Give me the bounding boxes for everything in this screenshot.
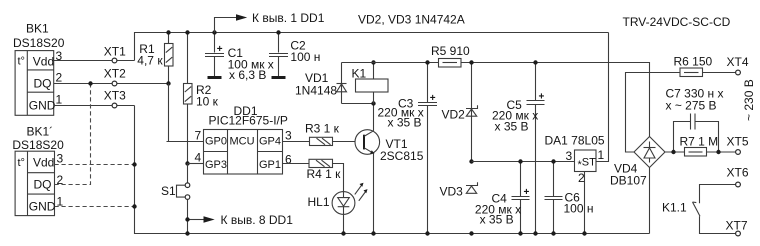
node S1 arrow junction [185,217,189,221]
node R1 bottom / DQ-GP0 [166,81,170,85]
svg-text:DA1 78L05: DA1 78L05 [545,134,605,148]
wire GP3 [188,163,204,165]
svg-text:х 6,3 В: х 6,3 В [229,68,266,82]
svg-text:DS18S20: DS18S20 [12,138,64,152]
node BK1' Vdd junction [132,162,136,166]
wire +5V top rail [135,33,609,61]
wire DQ down to GP0 [167,84,204,142]
svg-text:х 35 В: х 35 В [495,119,529,133]
resistor R6 [674,55,713,77]
node R2/GP3 junction [185,161,189,165]
pin 4 DD1 [195,151,202,165]
node C3 top [425,60,429,64]
resistor R2 [184,33,219,164]
label VD2 VD3 type [358,13,465,27]
node K1 top [371,60,375,64]
terminal XT1 [104,45,126,63]
LED HL1 [308,183,368,215]
svg-text:VD3: VD3 [440,185,464,199]
svg-text:R4 1 к: R4 1 к [307,167,342,181]
wire R3 to VT1 base [333,141,365,143]
wire GND to XT3 [54,105,135,107]
wire BK1' GND dashed [55,206,135,208]
svg-text:VD2: VD2 [442,108,466,122]
svg-text:XT6: XT6 [727,166,749,180]
sensor BK1 [13,22,65,116]
resistor R7 [680,135,719,157]
terminal XT2 [104,67,126,86]
node C7 right [716,150,720,154]
svg-text:7: 7 [195,129,202,143]
capacitor C1 [205,33,274,82]
svg-text:XT3: XT3 [104,89,126,103]
svg-text:XT5: XT5 [727,135,749,149]
wire R6 to XT4 [703,72,736,74]
svg-text:3: 3 [566,149,573,163]
bridge rectifier VD4 DB107 [610,137,665,188]
pin 2 BK1 [56,71,63,85]
pin 1 BK1' [57,195,64,209]
svg-text:1: 1 [56,93,63,107]
resistor R5 [431,44,470,67]
node VD3 ground [469,231,473,235]
wire GP1 to R4 [283,163,310,165]
wire BK1' Vdd dashed [55,164,135,166]
svg-text:+: + [430,93,436,104]
node VT1 collector junction [371,101,375,105]
wire VD1 bottom to VT1 collector [342,103,374,105]
wire rectified + bus [342,63,650,137]
wire R4 to HL1 [333,164,344,192]
node VT1 emitter ground [371,231,375,235]
pin 7 DD1 [195,129,202,143]
wire zener midpoint to DA1 input [472,161,575,163]
resistor R1 [137,33,173,84]
svg-text:S1: S1 [161,184,176,198]
svg-text:XT7: XT7 [726,219,748,233]
zener VD2 [442,63,478,162]
pin 3 BK1 [56,49,63,63]
capacitor C4 [475,162,530,234]
zener VD3 [440,182,478,198]
pin 2 BK1' [57,173,64,187]
svg-text:К выв. 1 DD1: К выв. 1 DD1 [252,11,325,25]
svg-text:VD2, VD3 1N4742A: VD2, VD3 1N4742A [358,13,465,27]
capacitor C6 [545,162,594,234]
svg-text:Vdd: Vdd [33,55,54,69]
svg-text:GP4: GP4 [259,136,281,148]
terminal XT6 [727,166,749,187]
pin 3 BK1' [57,152,64,166]
svg-text:2: 2 [56,71,63,85]
wire to pin 8 DD1 arrow [188,213,294,227]
wire DQ to XT2 [54,83,169,85]
ground C1 [208,76,222,79]
label TRV relay type [623,15,731,29]
pin 3 DD1 [285,129,292,143]
svg-text:3: 3 [57,152,64,166]
node DA1 pin2 ground [582,231,586,235]
svg-text:t°: t° [18,56,25,68]
label 230V mains [742,79,756,121]
wire to pin 1 DD1 arrow [215,11,325,33]
capacitor C7 [666,87,724,153]
node VD2 top [469,60,473,64]
svg-text:х ~ 275 В: х ~ 275 В [666,99,717,113]
svg-text:R5 910: R5 910 [431,44,470,58]
resistor R3 [305,122,340,146]
svg-text:К выв. 8 DD1: К выв. 8 DD1 [221,213,294,227]
node C6 ground [551,231,555,235]
svg-text:TRV-24VDC-SC-CD: TRV-24VDC-SC-CD [623,15,731,29]
node C6 top [551,159,555,163]
svg-text:XT4: XT4 [727,55,749,69]
wire bridge minus to ground rail [649,168,651,234]
svg-text:MCU: MCU [230,136,255,148]
svg-text:PIC12F675-I/P: PIC12F675-I/P [209,114,288,128]
svg-text:GP1: GP1 [259,159,281,171]
node DQ dashed junction [88,81,92,85]
capacitor C5 [492,63,545,234]
terminal XT5 [727,135,749,155]
svg-text:3: 3 [285,129,292,143]
svg-text:Vdd: Vdd [33,156,54,170]
ground bottom rail [135,106,650,234]
resistor R4 [307,159,342,181]
svg-text:1N4148: 1N4148 [295,84,337,98]
svg-text:DQ: DQ [34,178,52,192]
regulator DA1 78L05 [545,134,605,234]
svg-text:100 н: 100 н [564,202,594,216]
svg-text:XT2: XT2 [104,67,126,81]
transistor VT1 [355,104,424,234]
svg-text:R3 1 к: R3 1 к [305,122,340,136]
svg-text:GP3: GP3 [205,159,227,171]
node R1 top [166,30,170,34]
svg-text:+: + [217,44,223,55]
capacitor C2 [269,33,320,77]
contact K1.1 [662,185,736,234]
node HL1 ground [341,231,345,235]
pin 1 BK1 [56,93,63,107]
svg-text:K1: K1 [352,67,367,81]
node C4 ground [518,231,522,235]
svg-text:DQ: DQ [34,77,52,91]
diode VD1 [295,63,347,104]
wire DA1 output vertical [596,33,609,162]
svg-text:HL1: HL1 [308,195,330,209]
pin 6 DD1 [285,153,292,167]
node C2 top [276,30,280,34]
terminal XT3 [104,89,126,108]
terminal XT4 [727,55,749,75]
svg-text:BK1´: BK1´ [27,125,54,139]
node R2 top [185,30,189,34]
node C7 left [671,150,675,154]
capacitor C3 [378,63,438,234]
svg-text:1: 1 [598,148,605,162]
svg-text:GP0: GP0 [205,136,227,148]
svg-text:6: 6 [285,153,292,167]
svg-text:2: 2 [578,171,585,185]
node C1 top [212,30,216,34]
node VD2 VD3 junction [469,159,473,163]
svg-text:+: + [524,187,530,198]
svg-text:4,7 к: 4,7 к [137,54,163,68]
wire BK1' DQ dashed [55,84,91,185]
node S1 ground junction [185,231,189,235]
relay K1 [352,63,389,104]
svg-text:DB107: DB107 [610,174,647,188]
svg-text:t°: t° [18,157,25,169]
wire R6 branch [626,73,681,153]
svg-text:GND: GND [29,99,56,113]
svg-text:DS18S20: DS18S20 [13,36,65,50]
node C3 ground [425,231,429,235]
svg-text:х 35 В: х 35 В [480,213,514,227]
microcontroller DD1 PIC12F675 [204,104,288,174]
wire bridge right to XT5 [665,151,736,153]
svg-text:R6 150: R6 150 [674,55,713,69]
svg-text:10 к: 10 к [196,95,219,109]
svg-text:BK1: BK1 [26,22,49,36]
wire HL1 to ground [343,214,345,233]
svg-text:XT1: XT1 [104,45,126,59]
svg-text:2SC815: 2SC815 [380,149,424,163]
node C5 top [533,60,537,64]
svg-text:R7 1 M: R7 1 M [680,135,719,149]
svg-text:х 35 В: х 35 В [388,116,422,130]
sensor BK1' [12,125,64,216]
node C4 top [518,159,522,163]
wire Vdd to XT1 [54,60,135,62]
svg-text:~ 230 В: ~ 230 В [742,79,756,121]
svg-text:4: 4 [195,151,202,165]
svg-text:+: + [539,92,545,103]
wire GP4 to R3 [283,141,310,143]
node BK1' GND junction [132,204,136,208]
svg-text:K1.1: K1.1 [662,201,687,215]
svg-text:100 н: 100 н [290,50,320,64]
ground C2 [272,76,286,79]
node C5 ground [533,231,537,235]
switch S1 [161,164,190,234]
svg-text:GND: GND [29,200,56,214]
terminal XT7 [726,219,748,236]
